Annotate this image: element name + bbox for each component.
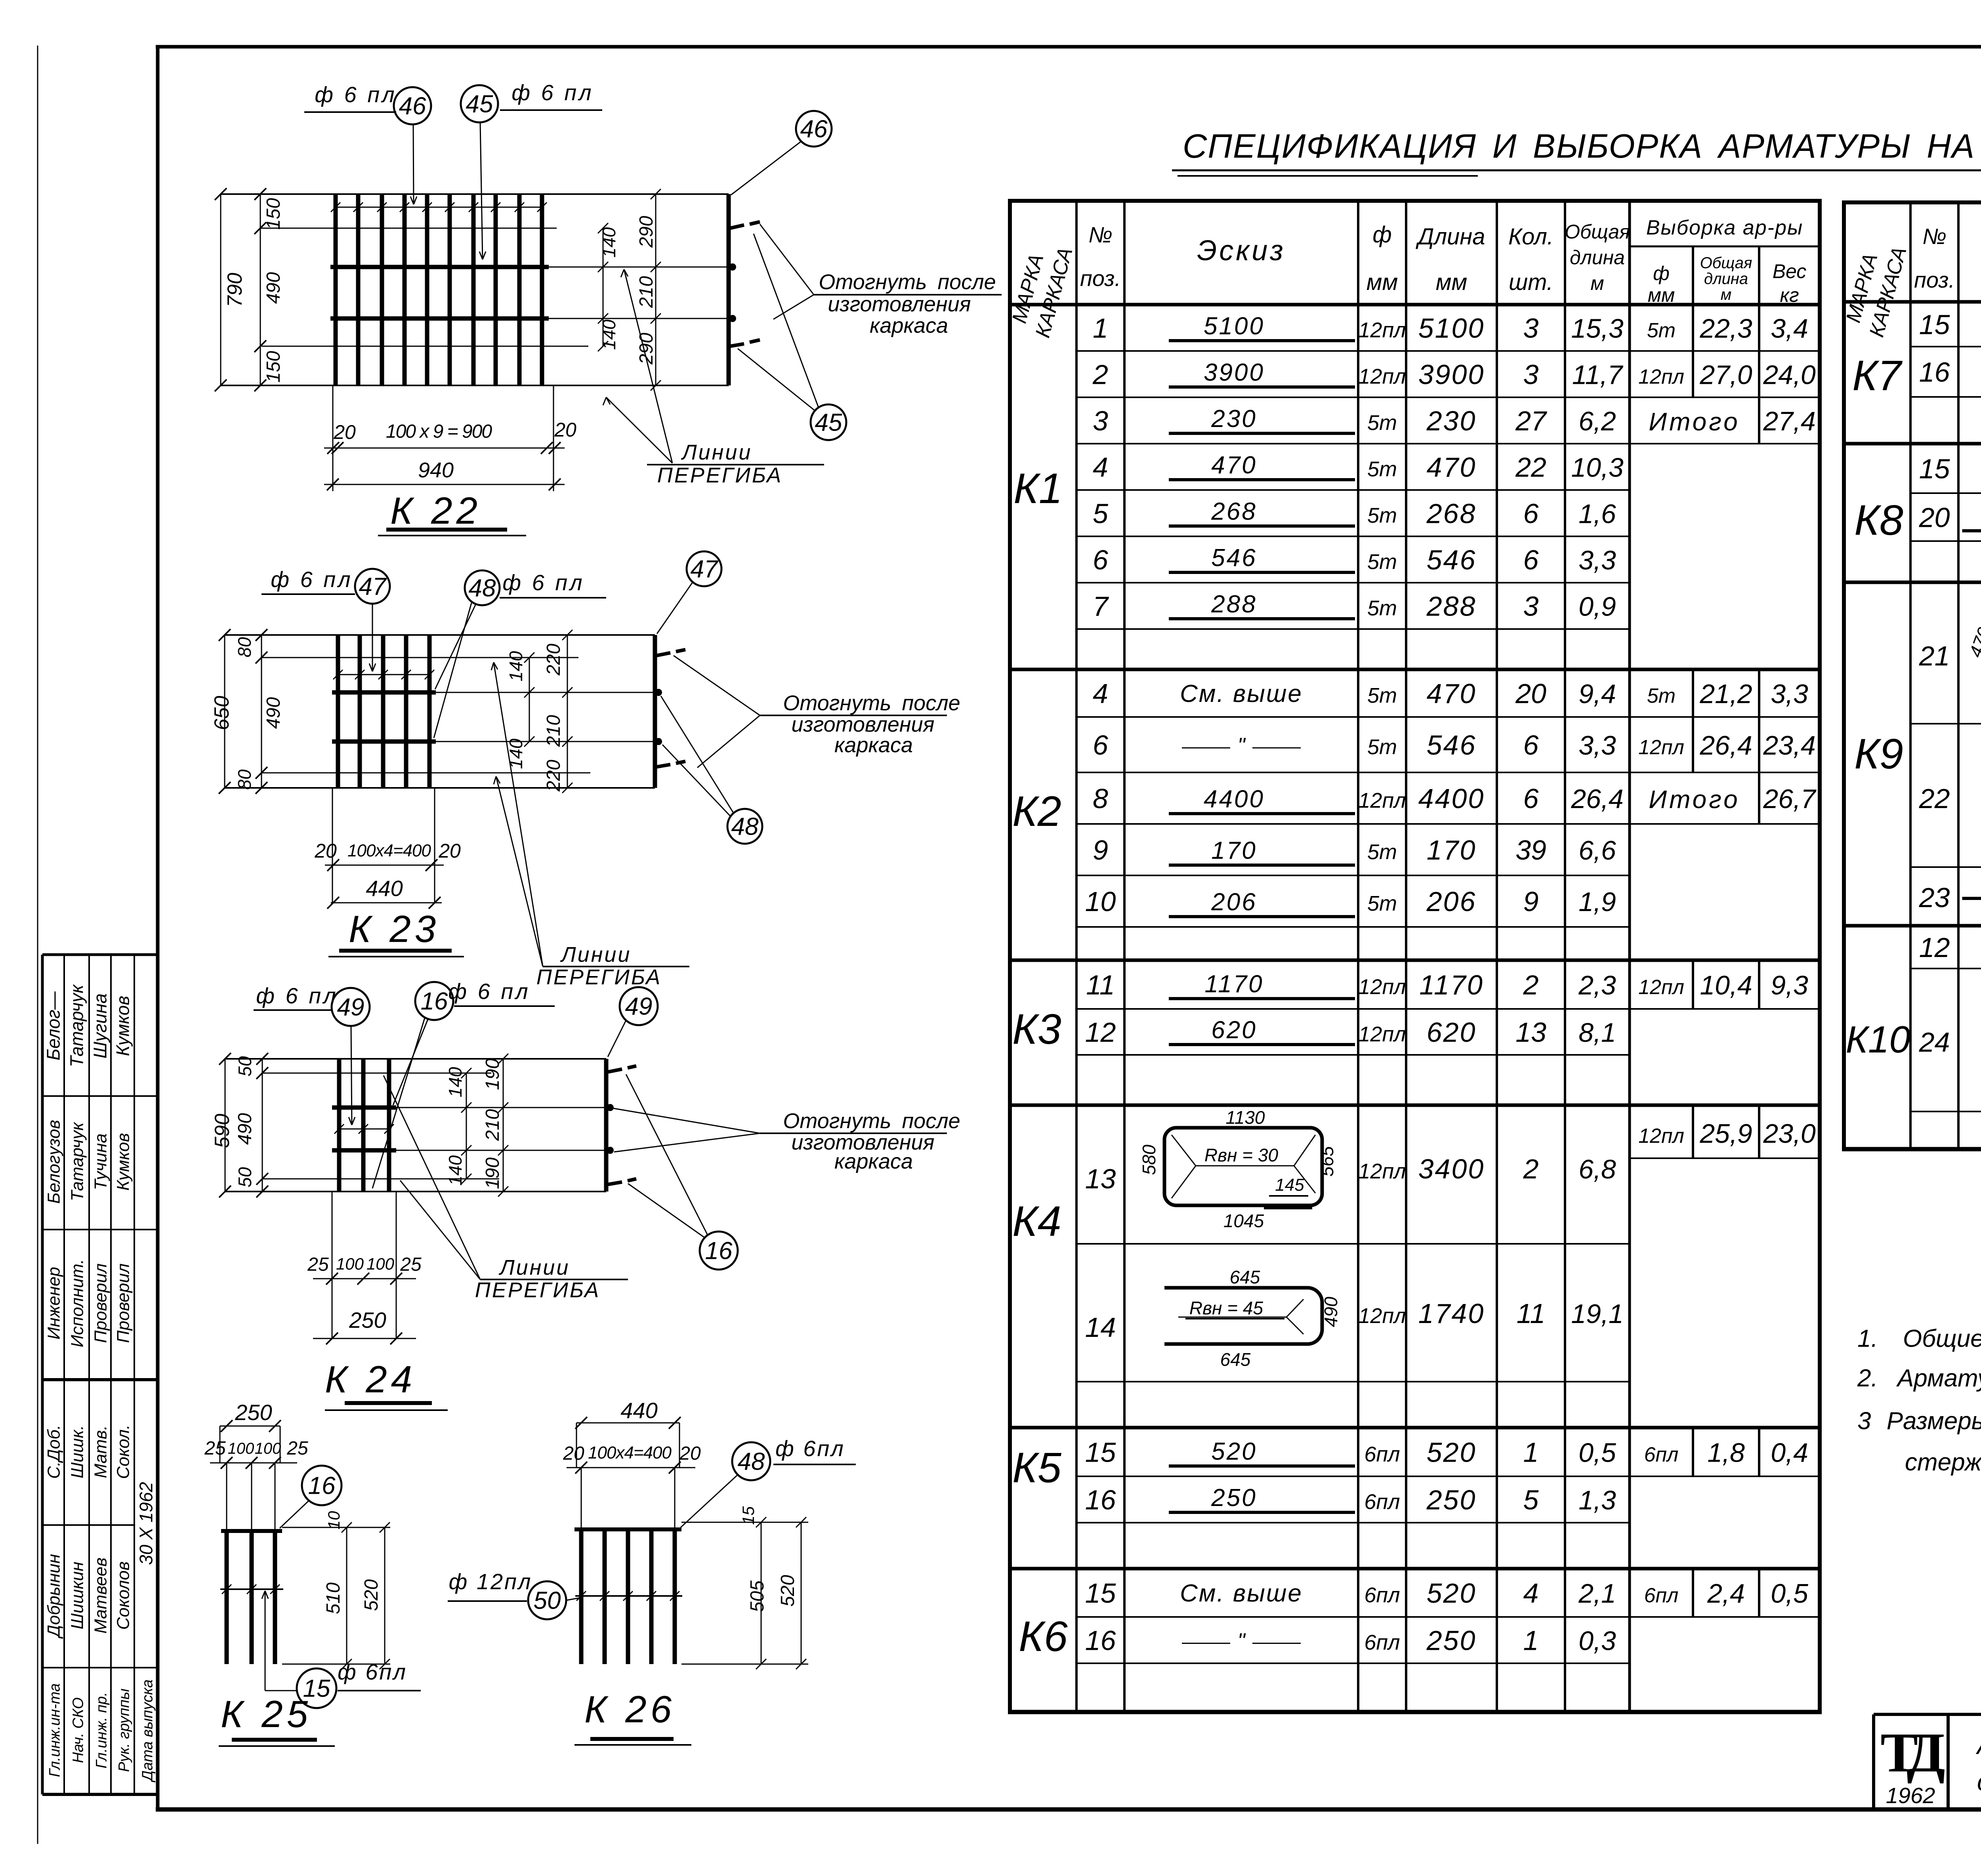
svg-text:24: 24 — [1919, 1027, 1950, 1058]
svg-text:25: 25 — [204, 1438, 226, 1459]
svg-text:20: 20 — [1919, 502, 1950, 533]
svg-text:12пл: 12пл — [1358, 975, 1406, 999]
svg-text:470: 470 — [1427, 452, 1477, 483]
svg-text:длина: длина — [1704, 270, 1748, 288]
svg-text:620: 620 — [1427, 1017, 1477, 1048]
svg-text:12: 12 — [1085, 1017, 1116, 1048]
svg-text:Матвеев: Матвеев — [91, 1558, 111, 1634]
svg-text:6: 6 — [1523, 545, 1539, 576]
svg-text:Кумков: Кумков — [113, 996, 133, 1056]
svg-text:15: 15 — [1085, 1578, 1116, 1609]
svg-text:К9: К9 — [1854, 730, 1903, 778]
sheet margin line — [37, 46, 38, 1844]
svg-text:20: 20 — [333, 421, 356, 443]
svg-text:4: 4 — [1093, 452, 1108, 483]
svg-text:206: 206 — [1211, 888, 1257, 916]
svg-text:Линии: Линии — [560, 943, 632, 967]
svg-text:12пл: 12пл — [1358, 365, 1406, 389]
svg-text:140: 140 — [506, 651, 526, 681]
svg-text:12пл: 12пл — [1358, 1159, 1406, 1183]
svg-text:1170: 1170 — [1419, 970, 1484, 1001]
K23 bottom dimension lines — [332, 788, 333, 903]
K22 mesh vertical bars — [334, 194, 338, 385]
K24 left dimension chains — [225, 1059, 226, 1192]
svg-text:8: 8 — [1093, 783, 1108, 814]
svg-text:5т: 5т — [1367, 735, 1397, 759]
svg-text:6: 6 — [1523, 730, 1539, 761]
svg-text:Линии: Линии — [681, 440, 752, 464]
svg-text:6: 6 — [1523, 498, 1539, 529]
svg-text:9: 9 — [1523, 886, 1539, 917]
svg-text:26,4: 26,4 — [1571, 784, 1623, 814]
left table row lines — [1076, 350, 1630, 352]
K25 callout 15 — [297, 1668, 336, 1708]
svg-text:5т: 5т — [1647, 319, 1676, 342]
svg-text:620: 620 — [1211, 1016, 1257, 1044]
svg-text:50: 50 — [534, 1587, 561, 1615]
svg-text:ф: ф — [1372, 222, 1391, 248]
left table K4 pos13 sketch — [1164, 1128, 1322, 1205]
svg-text:100 x 9 = 900: 100 x 9 = 900 — [386, 421, 492, 442]
svg-text:Rвн = 30: Rвн = 30 — [1204, 1145, 1279, 1165]
K22 left dimension chains — [220, 194, 221, 385]
K22 callout circles top — [394, 87, 431, 124]
svg-text:С.Доб.: С.Доб. — [44, 1425, 64, 1479]
svg-text:5100: 5100 — [1204, 313, 1265, 340]
svg-text:К1: К1 — [1013, 464, 1063, 512]
svg-text:4400: 4400 — [1204, 785, 1265, 813]
K26 middle bar line — [575, 1595, 682, 1597]
svg-text:": " — [1237, 1629, 1246, 1653]
K24 bottom dimension lines — [332, 1192, 333, 1338]
K24 spacing dim line — [339, 1129, 389, 1130]
svg-text:49: 49 — [337, 994, 365, 1021]
svg-text:12пл: 12пл — [1638, 976, 1684, 999]
svg-text:К3: К3 — [1012, 1005, 1061, 1053]
svg-text:К8: К8 — [1854, 496, 1903, 544]
svg-text:Выборка ар-ры: Выборка ар-ры — [1646, 216, 1803, 239]
K23 right dimension chains — [529, 658, 530, 742]
svg-text:650: 650 — [210, 696, 233, 730]
svg-text:Татарчук: Татарчук — [68, 1121, 87, 1201]
svg-text:12пл: 12пл — [1358, 1022, 1406, 1046]
svg-text:15: 15 — [1085, 1437, 1116, 1468]
svg-text:490: 490 — [235, 1113, 256, 1145]
K25 callout 16 — [302, 1466, 342, 1505]
svg-text:12: 12 — [1919, 932, 1950, 963]
right table block separators — [1844, 300, 1981, 304]
svg-text:Матв.: Матв. — [91, 1425, 111, 1478]
svg-text:3,4: 3,4 — [1771, 314, 1808, 344]
svg-text:4: 4 — [1523, 1578, 1539, 1609]
svg-text:49: 49 — [625, 993, 653, 1020]
svg-text:210: 210 — [482, 1109, 503, 1141]
svg-text:5100: 5100 — [1418, 313, 1485, 344]
K23 left dimension chains — [224, 635, 225, 788]
svg-text:100x4=400: 100x4=400 — [347, 841, 431, 860]
svg-text:590: 590 — [211, 1114, 234, 1148]
svg-text:ф 6 пл: ф 6 пл — [256, 983, 338, 1008]
svg-text:27,4: 27,4 — [1763, 406, 1815, 437]
svg-text:Общая: Общая — [1565, 221, 1630, 243]
svg-text:645: 645 — [1230, 1267, 1260, 1287]
svg-text:5: 5 — [1093, 498, 1109, 529]
svg-text:9,3: 9,3 — [1771, 970, 1808, 1001]
svg-text:1740: 1740 — [1418, 1298, 1485, 1329]
svg-text:Шишкин: Шишкин — [68, 1562, 87, 1630]
svg-text:изготовления: изготовления — [828, 292, 971, 316]
K22 spacing dim line — [336, 207, 542, 208]
svg-text:9: 9 — [1093, 835, 1108, 866]
svg-text:790: 790 — [223, 273, 246, 307]
svg-text:шт.: шт. — [1509, 269, 1553, 295]
svg-text:2. Арматурные каркасы даны: 2. Арматурные каркасы даны на листах 8 и… — [1857, 1365, 1981, 1392]
svg-text:Вес: Вес — [1773, 260, 1807, 282]
svg-text:288: 288 — [1211, 591, 1257, 618]
svg-text:ПЕРЕГИБА: ПЕРЕГИБА — [657, 463, 783, 487]
svg-text:мм: мм — [1436, 269, 1468, 295]
svg-text:6пл: 6пл — [1644, 1584, 1679, 1607]
svg-text:210: 210 — [636, 276, 657, 308]
svg-text:12пл: 12пл — [1638, 736, 1684, 759]
svg-text:3 Размеры в поз 13, 14, 21: 3 Размеры в поз 13, 14, 21, 22 и 24 даны… — [1857, 1407, 1981, 1435]
svg-text:11: 11 — [1517, 1298, 1546, 1329]
svg-text:Добрынин: Добрынин — [44, 1554, 64, 1639]
svg-text:2: 2 — [1092, 359, 1108, 390]
svg-text:230: 230 — [1426, 406, 1477, 437]
svg-text:12пл: 12пл — [1358, 789, 1406, 812]
svg-text:Нач. СКО: Нач. СКО — [70, 1697, 87, 1763]
svg-text:80: 80 — [234, 769, 255, 790]
svg-text:К 26: К 26 — [584, 1688, 676, 1731]
svg-text:546: 546 — [1427, 730, 1477, 761]
svg-text:5т: 5т — [1367, 684, 1397, 707]
svg-text:6,2: 6,2 — [1578, 406, 1616, 437]
svg-text:3,3: 3,3 — [1771, 679, 1808, 709]
svg-text:470: 470 — [1427, 678, 1477, 709]
svg-text:7: 7 — [1093, 591, 1109, 622]
left table block separators — [1010, 303, 1820, 307]
K22 horizontal bars — [330, 265, 549, 269]
svg-text:ф 12пл: ф 12пл — [448, 1569, 532, 1594]
svg-text:10: 10 — [1085, 886, 1116, 917]
svg-text:ф 6 пл: ф 6 пл — [315, 82, 397, 107]
svg-text:Кумков: Кумков — [114, 1133, 133, 1191]
svg-text:0,9: 0,9 — [1578, 592, 1616, 622]
svg-text:5: 5 — [1523, 1485, 1539, 1516]
svg-text:5т: 5т — [1367, 504, 1397, 528]
svg-text:0,5: 0,5 — [1771, 1579, 1808, 1609]
svg-text:К7: К7 — [1852, 351, 1903, 399]
svg-text:2: 2 — [1523, 1153, 1539, 1184]
svg-text:3,3: 3,3 — [1578, 730, 1616, 761]
right table column lines — [1909, 202, 1912, 1149]
svg-text:К 22: К 22 — [390, 490, 481, 532]
svg-text:См. выше: См. выше — [1180, 680, 1303, 707]
svg-text:27: 27 — [1515, 406, 1548, 437]
svg-text:1,8: 1,8 — [1707, 1438, 1745, 1468]
svg-text:100: 100 — [366, 1254, 395, 1273]
svg-text:940: 940 — [418, 458, 454, 482]
svg-text:48: 48 — [469, 575, 496, 602]
svg-text:3400: 3400 — [1418, 1153, 1485, 1184]
svg-text:5т: 5т — [1367, 892, 1397, 915]
svg-text:3: 3 — [1523, 359, 1539, 390]
svg-text:22: 22 — [1515, 452, 1546, 483]
svg-text:546: 546 — [1427, 545, 1477, 576]
svg-text:Длина: Длина — [1416, 224, 1485, 250]
svg-text:520: 520 — [777, 1575, 798, 1607]
svg-text:ф 6 пл: ф 6 пл — [511, 80, 594, 105]
svg-text:Шишк.: Шишк. — [68, 1425, 87, 1479]
left table column lines — [1075, 201, 1078, 1712]
svg-text:24,0: 24,0 — [1763, 360, 1816, 390]
svg-text:1: 1 — [1093, 313, 1108, 344]
svg-text:Татарчук: Татарчук — [67, 984, 87, 1067]
svg-text:Гл.инж. пр.: Гл.инж. пр. — [94, 1692, 110, 1769]
svg-text:Тучина: Тучина — [91, 1133, 111, 1190]
svg-text:288: 288 — [1426, 591, 1477, 622]
svg-text:К 24: К 24 — [325, 1358, 416, 1401]
svg-text:6: 6 — [1093, 730, 1108, 761]
svg-text:290: 290 — [636, 216, 657, 248]
svg-text:спецификация арматуры: спецификация арматуры — [1977, 1767, 1981, 1796]
svg-text:ф 6 пл: ф 6 пл — [502, 570, 584, 595]
stamp block lower — [42, 1793, 158, 1796]
svg-text:Rвн = 45: Rвн = 45 — [1189, 1298, 1263, 1318]
right table row lines — [1910, 346, 1981, 347]
svg-text:6пл: 6пл — [1364, 1490, 1400, 1514]
svg-text:20: 20 — [563, 1443, 584, 1464]
svg-text:6пл: 6пл — [1364, 1631, 1400, 1655]
svg-text:250: 250 — [1426, 1485, 1477, 1516]
svg-text:Сокол.: Сокол. — [114, 1424, 133, 1479]
K22 fold side view — [727, 194, 731, 385]
svg-text:поз.: поз. — [1080, 266, 1121, 291]
svg-text:6пл: 6пл — [1364, 1583, 1400, 1607]
svg-text:2,1: 2,1 — [1578, 1579, 1616, 1609]
svg-text:16: 16 — [308, 1472, 336, 1500]
svg-text:ф 6 пл: ф 6 пл — [271, 567, 353, 592]
svg-text:250: 250 — [1211, 1484, 1257, 1512]
K24 mesh edge lines — [225, 1058, 606, 1060]
svg-text:23,4: 23,4 — [1763, 730, 1815, 761]
svg-text:Исполнит.: Исполнит. — [68, 1259, 87, 1347]
svg-text:46: 46 — [800, 116, 828, 143]
svg-text:510: 510 — [323, 1582, 344, 1614]
svg-text:Белогузов: Белогузов — [44, 1120, 64, 1204]
svg-text:Рук. группы: Рук. группы — [116, 1689, 133, 1772]
svg-text:3900: 3900 — [1204, 359, 1265, 386]
svg-text:250: 250 — [235, 1400, 272, 1425]
svg-text:длина: длина — [1570, 246, 1625, 269]
svg-text:520: 520 — [1211, 1438, 1257, 1465]
svg-text:505: 505 — [747, 1580, 768, 1612]
svg-text:СПЕЦИФИКАЦИЯ И ВЫБОРКА АРМА: СПЕЦИФИКАЦИЯ И ВЫБОРКА АРМАТУРЫ НА ОДИН … — [1183, 128, 1981, 165]
svg-text:Итого: Итого — [1649, 785, 1740, 814]
svg-text:13: 13 — [1085, 1163, 1116, 1194]
svg-text:№: № — [1088, 222, 1113, 247]
svg-text:268: 268 — [1211, 498, 1257, 525]
svg-text:190: 190 — [482, 1157, 503, 1189]
svg-text:0,4: 0,4 — [1771, 1438, 1808, 1468]
svg-text:См. выше: См. выше — [1180, 1580, 1303, 1607]
svg-text:1: 1 — [1523, 1437, 1539, 1468]
svg-text:1045: 1045 — [1223, 1211, 1264, 1231]
svg-text:20: 20 — [1515, 678, 1546, 709]
svg-text:5т: 5т — [1367, 411, 1397, 435]
K22 mesh edge lines — [221, 193, 729, 195]
right table outer borders — [1842, 200, 1981, 204]
svg-text:1,3: 1,3 — [1578, 1485, 1616, 1516]
svg-text:4: 4 — [1093, 678, 1108, 709]
K24 callout circles right — [620, 987, 658, 1025]
svg-text:15: 15 — [739, 1506, 758, 1525]
svg-text:210: 210 — [543, 715, 564, 747]
svg-text:К5: К5 — [1012, 1443, 1062, 1491]
svg-text:мм: мм — [1366, 269, 1398, 295]
svg-text:К 23: К 23 — [349, 908, 440, 950]
svg-text:50: 50 — [235, 1056, 255, 1077]
svg-text:К6: К6 — [1019, 1612, 1068, 1660]
svg-text:ПЕРЕГИБА: ПЕРЕГИБА — [475, 1278, 601, 1302]
svg-text:3: 3 — [1093, 406, 1108, 437]
svg-text:12пл: 12пл — [1358, 318, 1406, 342]
svg-text:К4: К4 — [1012, 1197, 1061, 1245]
svg-text:11: 11 — [1086, 970, 1115, 1001]
svg-text:2,3: 2,3 — [1578, 970, 1616, 1001]
svg-text:каркаса: каркаса — [870, 314, 948, 337]
K23 mesh vertical bars — [336, 635, 340, 788]
K24 horizontal bars — [332, 1106, 396, 1110]
svg-text:46: 46 — [399, 93, 426, 120]
svg-text:Линии: Линии — [499, 1256, 570, 1279]
svg-text:520: 520 — [361, 1579, 382, 1611]
svg-text:1,6: 1,6 — [1578, 499, 1616, 529]
svg-text:47: 47 — [691, 556, 719, 583]
svg-text:170: 170 — [1211, 837, 1257, 864]
svg-text:80: 80 — [234, 637, 255, 658]
K23 fold side view — [653, 635, 657, 788]
svg-text:490: 490 — [1321, 1296, 1341, 1327]
svg-text:3: 3 — [1523, 591, 1539, 622]
left table outer borders — [1008, 199, 1822, 203]
svg-text:250: 250 — [1426, 1625, 1477, 1656]
svg-text:6: 6 — [1523, 783, 1539, 814]
svg-text:12пл: 12пл — [1638, 366, 1684, 389]
svg-text:ТД: ТД — [1880, 1721, 1945, 1784]
svg-text:0,3: 0,3 — [1578, 1626, 1616, 1656]
K22 bottom dimension lines — [332, 386, 334, 491]
svg-text:20: 20 — [554, 419, 576, 441]
K22 callout circles right — [796, 111, 832, 147]
svg-text:5т: 5т — [1367, 550, 1397, 574]
svg-text:20: 20 — [438, 840, 461, 862]
svg-text:Дата выпуска: Дата выпуска — [139, 1680, 156, 1783]
svg-text:220: 220 — [543, 644, 564, 676]
K25 vertical bars — [225, 1531, 229, 1664]
svg-text:150: 150 — [263, 351, 284, 383]
svg-text:1,9: 1,9 — [1578, 887, 1616, 917]
svg-text:20: 20 — [679, 1443, 701, 1464]
svg-text:": " — [1237, 734, 1246, 757]
svg-text:45: 45 — [466, 91, 493, 118]
svg-text:Шугина: Шугина — [90, 993, 111, 1059]
svg-text:48: 48 — [731, 813, 759, 841]
svg-text:13: 13 — [1515, 1017, 1546, 1048]
svg-text:15: 15 — [1919, 309, 1950, 340]
K26 callout 48 — [732, 1442, 770, 1480]
K26 vertical bars — [579, 1529, 584, 1664]
svg-text:546: 546 — [1211, 544, 1257, 572]
svg-text:4400: 4400 — [1418, 783, 1485, 814]
svg-text:каркаса: каркаса — [834, 1150, 913, 1173]
svg-text:520: 520 — [1427, 1578, 1477, 1609]
svg-text:50: 50 — [235, 1167, 255, 1188]
K22 right dimension chains — [603, 228, 604, 346]
drawing frame — [156, 45, 1981, 49]
svg-text:К 25: К 25 — [221, 1693, 312, 1735]
svg-text:25: 25 — [400, 1254, 422, 1275]
svg-text:140: 140 — [445, 1067, 466, 1097]
svg-text:поз.: поз. — [1914, 267, 1955, 292]
K24 right dimension chains — [466, 1073, 467, 1179]
svg-text:3,3: 3,3 — [1578, 545, 1616, 576]
svg-text:45: 45 — [815, 409, 842, 437]
svg-text:15,3: 15,3 — [1571, 314, 1624, 344]
svg-text:Проверил: Проверил — [91, 1263, 111, 1343]
svg-text:ПЕРЕГИБА: ПЕРЕГИБА — [536, 965, 662, 989]
svg-text:520: 520 — [1427, 1437, 1477, 1468]
svg-text:190: 190 — [482, 1058, 503, 1090]
K24 fold side view — [604, 1059, 609, 1192]
svg-text:6,6: 6,6 — [1578, 835, 1616, 866]
svg-text:10,3: 10,3 — [1571, 453, 1624, 483]
K23 horizontal bars — [332, 690, 436, 695]
svg-text:0,5: 0,5 — [1578, 1438, 1616, 1468]
svg-text:10,4: 10,4 — [1700, 970, 1752, 1001]
svg-text:440: 440 — [366, 876, 403, 901]
svg-text:12пл: 12пл — [1638, 1125, 1684, 1148]
svg-text:23: 23 — [1919, 882, 1950, 913]
K25 middle bar line — [220, 1588, 283, 1590]
svg-text:ф: ф — [1653, 262, 1670, 284]
K25 top horizontal bar — [221, 1529, 282, 1533]
svg-text:3: 3 — [1523, 313, 1539, 344]
svg-text:23,0: 23,0 — [1763, 1119, 1816, 1149]
svg-text:Инженер: Инженер — [44, 1267, 64, 1340]
svg-text:1. Общие примечания даны н: 1. Общие примечания даны на листе 8. — [1857, 1325, 1981, 1352]
svg-text:6: 6 — [1093, 545, 1108, 576]
svg-text:Белог—: Белог— — [43, 991, 64, 1060]
svg-text:16: 16 — [1085, 1625, 1116, 1656]
svg-text:ф 6пл: ф 6пл — [775, 1436, 845, 1461]
svg-text:22,3: 22,3 — [1699, 314, 1752, 344]
K25 right dimension chains — [282, 1527, 390, 1528]
svg-text:5т: 5т — [1367, 840, 1397, 864]
svg-text:9,4: 9,4 — [1578, 679, 1616, 709]
svg-text:м: м — [1721, 286, 1731, 303]
svg-text:16: 16 — [705, 1237, 733, 1265]
svg-text:15: 15 — [1919, 454, 1950, 484]
svg-text:1962: 1962 — [1886, 1783, 1935, 1808]
svg-text:Отогнуть после: Отогнуть после — [783, 691, 960, 715]
svg-text:25: 25 — [286, 1438, 308, 1459]
svg-text:27,0: 27,0 — [1699, 360, 1752, 390]
svg-text:11,7: 11,7 — [1572, 360, 1623, 390]
K23 callout circles top — [355, 569, 390, 604]
svg-text:14: 14 — [1085, 1312, 1116, 1343]
